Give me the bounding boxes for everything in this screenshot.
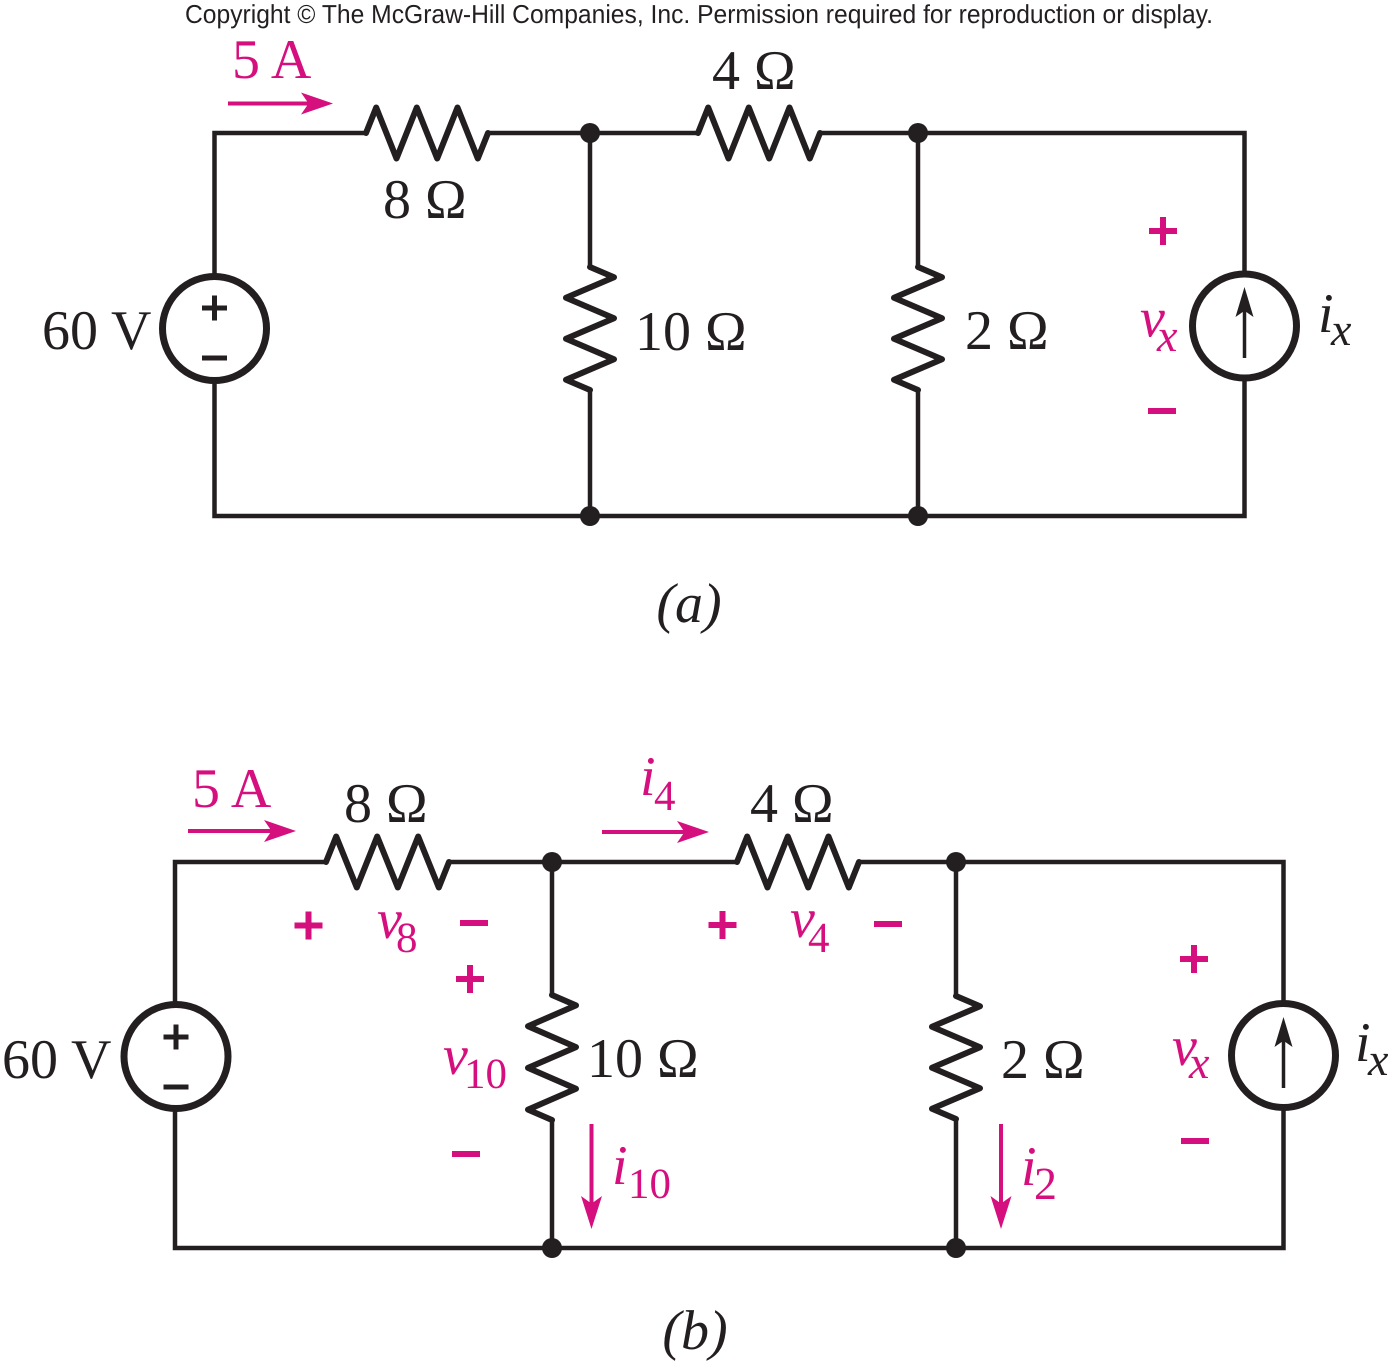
wire: (b) bottom loop	[175, 1109, 1284, 1248]
wire: (b) 10ohm branch lower lead	[550, 1120, 555, 1248]
60V (a) plus sign	[202, 306, 227, 311]
wire: (a) top wire between 8ohm and 4ohm	[488, 131, 698, 136]
wire: (b) 2ohm branch lower lead	[954, 1119, 959, 1248]
label vx plus (b)	[1180, 956, 1208, 962]
current arrow i10 (b)	[590, 1124, 594, 1202]
node dot (b) bottom-right junction	[946, 1238, 966, 1258]
label v10 plus (b)	[456, 976, 484, 982]
svg-text:60 V: 60 V	[42, 300, 151, 362]
resistor R 8ohm (a) zigzag	[366, 108, 488, 159]
60V (b) minus sign	[164, 1085, 189, 1090]
svg-text:x: x	[1188, 1037, 1210, 1088]
60V (a) minus sign	[202, 356, 227, 361]
node dot (a) bottom-right junction	[908, 506, 928, 526]
svg-text:4: 4	[808, 915, 830, 962]
svg-text:10 Ω: 10 Ω	[635, 301, 747, 363]
current source ix (b) arrow	[1282, 1042, 1286, 1088]
wire: (b) top wire right segment + right drop	[860, 862, 1284, 1002]
wire: (a) 2ohm branch upper lead	[916, 133, 921, 268]
node dot (a) top-left junction	[580, 123, 600, 143]
voltage source 60V (a) circle	[163, 277, 267, 381]
svg-text:5 A: 5 A	[192, 758, 272, 820]
current source ix (a) circle	[1193, 274, 1297, 378]
60V (b) plus sign	[164, 1035, 189, 1040]
svg-text:60 V: 60 V	[2, 1029, 111, 1091]
label v4 plus (b)	[709, 922, 737, 928]
node dot (a) top-right junction	[908, 123, 928, 143]
label vx minus (a)	[1148, 408, 1176, 414]
svg-text:(a): (a)	[656, 573, 721, 635]
wire: (a) 10ohm branch lower lead	[588, 390, 593, 516]
svg-text:8 Ω: 8 Ω	[344, 773, 428, 835]
svg-text:10 Ω: 10 Ω	[587, 1028, 699, 1090]
label v10 minus (b)	[452, 1151, 480, 1157]
current source ix (b) circle	[1232, 1004, 1336, 1108]
voltage source 60V (b) circle	[124, 1005, 228, 1109]
wire: (a) 10ohm branch upper lead	[588, 133, 593, 268]
current arrow 5A (b)	[188, 829, 270, 833]
svg-text:x: x	[1367, 1034, 1389, 1085]
wire: (a) top wire right segment + right drop	[820, 133, 1245, 274]
svg-text:10: 10	[464, 1051, 507, 1098]
label vx plus (a)	[1149, 228, 1177, 234]
svg-text:8: 8	[396, 915, 418, 962]
svg-text:5 A: 5 A	[232, 29, 312, 91]
current source ix (a) arrow	[1243, 312, 1247, 358]
label vx minus (b)	[1181, 1138, 1209, 1144]
svg-text:4 Ω: 4 Ω	[750, 773, 834, 835]
svg-text:4: 4	[654, 773, 676, 820]
svg-text:(b): (b)	[662, 1300, 727, 1361]
resistor R 8ohm (b) zigzag	[326, 837, 449, 888]
wire: (b) 10ohm branch upper lead	[550, 862, 555, 996]
svg-text:4 Ω: 4 Ω	[712, 40, 796, 102]
svg-text:2: 2	[1034, 1158, 1057, 1209]
node dot (b) top-left junction	[542, 852, 562, 872]
svg-text:i: i	[612, 1135, 628, 1197]
label v8 plus (b)	[295, 923, 323, 929]
resistor R 4ohm (b) zigzag	[737, 837, 859, 888]
node dot (a) bottom-left junction	[580, 506, 600, 526]
resistor R 2ohm (b) zigzag	[932, 996, 980, 1119]
svg-text:x: x	[1156, 310, 1178, 361]
node dot (b) bottom-left junction	[542, 1238, 562, 1258]
wire: (a) left drop below source	[215, 378, 1245, 516]
resistor R 10ohm (b) zigzag	[528, 995, 576, 1120]
current arrow 5A (a)	[228, 102, 307, 106]
svg-text:Copyright © The McGraw-Hill Co: Copyright © The McGraw-Hill Companies, I…	[185, 0, 1213, 29]
svg-text:2 Ω: 2 Ω	[1001, 1029, 1085, 1091]
wire: circuit (b) top wire left segment	[175, 862, 326, 1004]
wire: (b) top wire between 8ohm and 4ohm	[449, 860, 737, 865]
svg-text:10: 10	[628, 1161, 671, 1208]
resistor R 4ohm (a) zigzag	[698, 108, 820, 159]
node dot (b) top-right junction	[946, 852, 966, 872]
resistor R 2ohm (a) zigzag	[894, 267, 942, 390]
wire: (a) 2ohm branch lower lead	[916, 390, 921, 516]
label v8 minus (b)	[460, 920, 488, 926]
svg-text:x: x	[1330, 304, 1352, 355]
current arrow i4 (b)	[602, 830, 683, 834]
current arrow i2 (b)	[999, 1124, 1003, 1202]
svg-text:8 Ω: 8 Ω	[383, 169, 467, 231]
svg-text:2 Ω: 2 Ω	[965, 300, 1049, 362]
resistor R 10ohm (a) zigzag	[566, 267, 614, 390]
wire: (b) 2ohm branch upper lead	[954, 862, 959, 997]
wire: circuit (a) top wire left segment	[215, 133, 367, 276]
label v4 minus (b)	[874, 921, 902, 927]
